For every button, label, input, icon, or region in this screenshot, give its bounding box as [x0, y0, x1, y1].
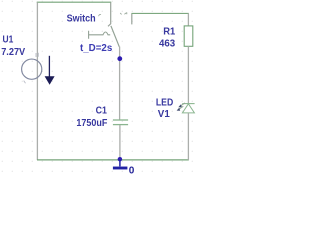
wire: switch pivot down to capacitor C1 — [119, 47, 121, 120]
LED V1 triangle — [182, 104, 194, 113]
switch blade (diagonal) — [111, 26, 119, 47]
wire: vertical drop into R1 top pin — [187, 13, 189, 26]
LED light arrow 1 — [180, 103, 185, 107]
wire: top rail from source U1 to switch — [37, 1, 112, 3]
switch time-delay actuator with semicircle bump — [89, 31, 111, 39]
wire: left vertical through source U1 down to bottom rail — [36, 2, 38, 160]
resistor R1 (box symbol) — [184, 26, 193, 46]
node junction dot (ground node) — [118, 157, 123, 162]
pin number mark, U1 top pin — [36, 53, 38, 57]
LED V1 cathode bar — [182, 103, 194, 105]
voltage source U1 (circle symbol) — [22, 59, 42, 79]
ground stub — [119, 160, 121, 167]
wire: R1 bottom pin down to LED V1 — [187, 46, 189, 103]
node junction dot (switch/C1 node) — [117, 56, 122, 61]
switch contact marks (right contact) — [120, 12, 127, 14]
svg-text:U1: U1 — [3, 35, 14, 46]
svg-text:V1: V1 — [158, 109, 170, 120]
switch terminal stub to top rail — [108, 2, 111, 26]
voltage direction arrow of U1 — [48, 56, 50, 77]
svg-text:1750uF: 1750uF — [76, 118, 107, 129]
wire: horizontal run to resistor R1 — [132, 12, 189, 14]
pin number mark, U1 bottom pin — [24, 81, 26, 84]
capacitor C1 plates — [113, 119, 128, 121]
wire: C1 bottom pin to bottom rail — [119, 125, 121, 160]
svg-text:R1: R1 — [163, 27, 175, 38]
svg-text:Switch: Switch — [67, 14, 96, 25]
svg-text:t_D=2s: t_D=2s — [80, 43, 113, 54]
wire: LED V1 bottom pin to bottom rail — [187, 113, 189, 160]
svg-text:7.27V: 7.27V — [1, 47, 25, 58]
svg-text:C1: C1 — [96, 106, 108, 117]
ground bar — [113, 167, 128, 170]
wire: bottom rail — [37, 159, 189, 161]
switch terminal stub to R1 wire — [131, 13, 133, 24]
LED light arrow 2 — [178, 106, 183, 110]
svg-text:463: 463 — [159, 38, 176, 49]
switch contact mark (left contact) — [99, 14, 101, 16]
svg-text:LED: LED — [156, 97, 173, 108]
svg-text:0: 0 — [129, 165, 135, 176]
